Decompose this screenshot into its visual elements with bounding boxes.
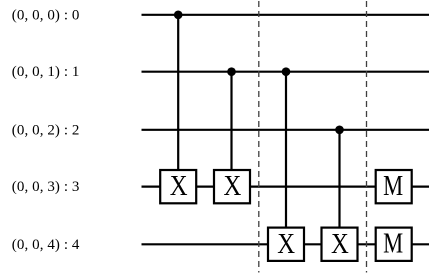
svg-text:(0, 0, 1) : 1: (0, 0, 1) : 1 bbox=[12, 64, 80, 80]
svg-text:(0, 0, 0) : 0: (0, 0, 0) : 0 bbox=[12, 7, 80, 23]
svg-text:(0, 0, 4) : 4: (0, 0, 4) : 4 bbox=[12, 237, 80, 253]
svg-text:X: X bbox=[224, 171, 242, 202]
svg-text:(0, 0, 3) : 3: (0, 0, 3) : 3 bbox=[12, 179, 80, 195]
svg-text:(0, 0, 2) : 2: (0, 0, 2) : 2 bbox=[12, 122, 80, 138]
svg-text:X: X bbox=[331, 229, 349, 260]
svg-text:X: X bbox=[277, 229, 295, 260]
svg-text:M: M bbox=[383, 171, 403, 202]
svg-text:M: M bbox=[383, 229, 403, 260]
svg-text:X: X bbox=[170, 171, 188, 202]
